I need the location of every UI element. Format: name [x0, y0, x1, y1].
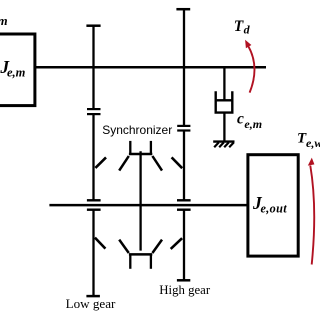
low gear wheel line upper: [92, 114, 94, 200]
torque arrow T_e,w: [310, 166, 314, 265]
synchronizer stem: [139, 151, 141, 250]
ground hatch 3: [224, 142, 229, 147]
arrowhead T_e,w: [308, 158, 315, 166]
high mesh plate upper: [177, 125, 190, 127]
synchronizer upper right leg: [150, 141, 152, 155]
high gear hub plate upper: [177, 199, 191, 201]
ground hatch 4: [229, 142, 234, 147]
synchronizer upper bar: [129, 153, 152, 156]
ground hatch 2: [219, 142, 224, 147]
low pinion top cap: [86, 24, 100, 27]
damper piston: [217, 99, 233, 101]
ground hatch 1: [214, 142, 219, 147]
high mesh plate lower: [177, 129, 190, 131]
svg-text:High gear: High gear: [159, 283, 211, 297]
low mesh plate upper: [87, 108, 101, 110]
low gear dog tooth lower: [95, 238, 106, 249]
synchronizer lower right leg: [150, 254, 152, 269]
low gear hub plate lower: [87, 208, 101, 210]
output shaft: [49, 204, 248, 207]
synchronizer upper left leg: [129, 141, 131, 155]
svg-text:m: m: [0, 13, 8, 28]
high pinion top cap: [176, 8, 190, 11]
low gear wheel line lower: [92, 210, 94, 297]
ground baseline: [213, 140, 234, 142]
low pinion shaft line: [92, 26, 94, 110]
low mesh plate lower: [87, 113, 101, 115]
synchronizer lower right chamfer: [152, 240, 162, 253]
synchronizer lower left leg: [129, 254, 131, 269]
low gear dog tooth upper: [95, 157, 106, 168]
high gear wheel line upper: [183, 130, 185, 200]
svg-text:Te,w: Te,w: [297, 130, 320, 150]
high gear dog tooth lower: [171, 238, 182, 249]
synchronizer upper left chamfer: [119, 156, 129, 171]
torque arrow T_d: [248, 46, 254, 92]
svg-text:Synchronizer: Synchronizer: [102, 123, 172, 137]
svg-text:Low gear: Low gear: [66, 296, 116, 311]
synchronizer upper right chamfer: [152, 156, 162, 171]
input shaft: [34, 66, 266, 69]
inertia block J_e,out: [248, 155, 298, 256]
svg-text:ce,m: ce,m: [237, 111, 262, 132]
high gear hub plate lower: [177, 208, 191, 210]
low gear bottom cap: [86, 295, 100, 298]
inertia block J_e,m: [0, 34, 35, 106]
high pinion shaft line: [183, 9, 185, 126]
low gear hub plate upper: [87, 199, 101, 201]
synchronizer lower left chamfer: [119, 240, 129, 253]
damper stem lower: [223, 113, 225, 142]
high gear wheel line lower: [183, 210, 185, 281]
high gear bottom cap: [177, 279, 190, 282]
synchronizer lower bar: [129, 253, 152, 256]
damper cylinder: [216, 91, 233, 112]
high gear dog tooth upper: [172, 157, 183, 168]
svg-text:Td: Td: [234, 18, 251, 37]
damper stem upper: [223, 67, 225, 100]
arrowhead T_d: [245, 40, 251, 49]
